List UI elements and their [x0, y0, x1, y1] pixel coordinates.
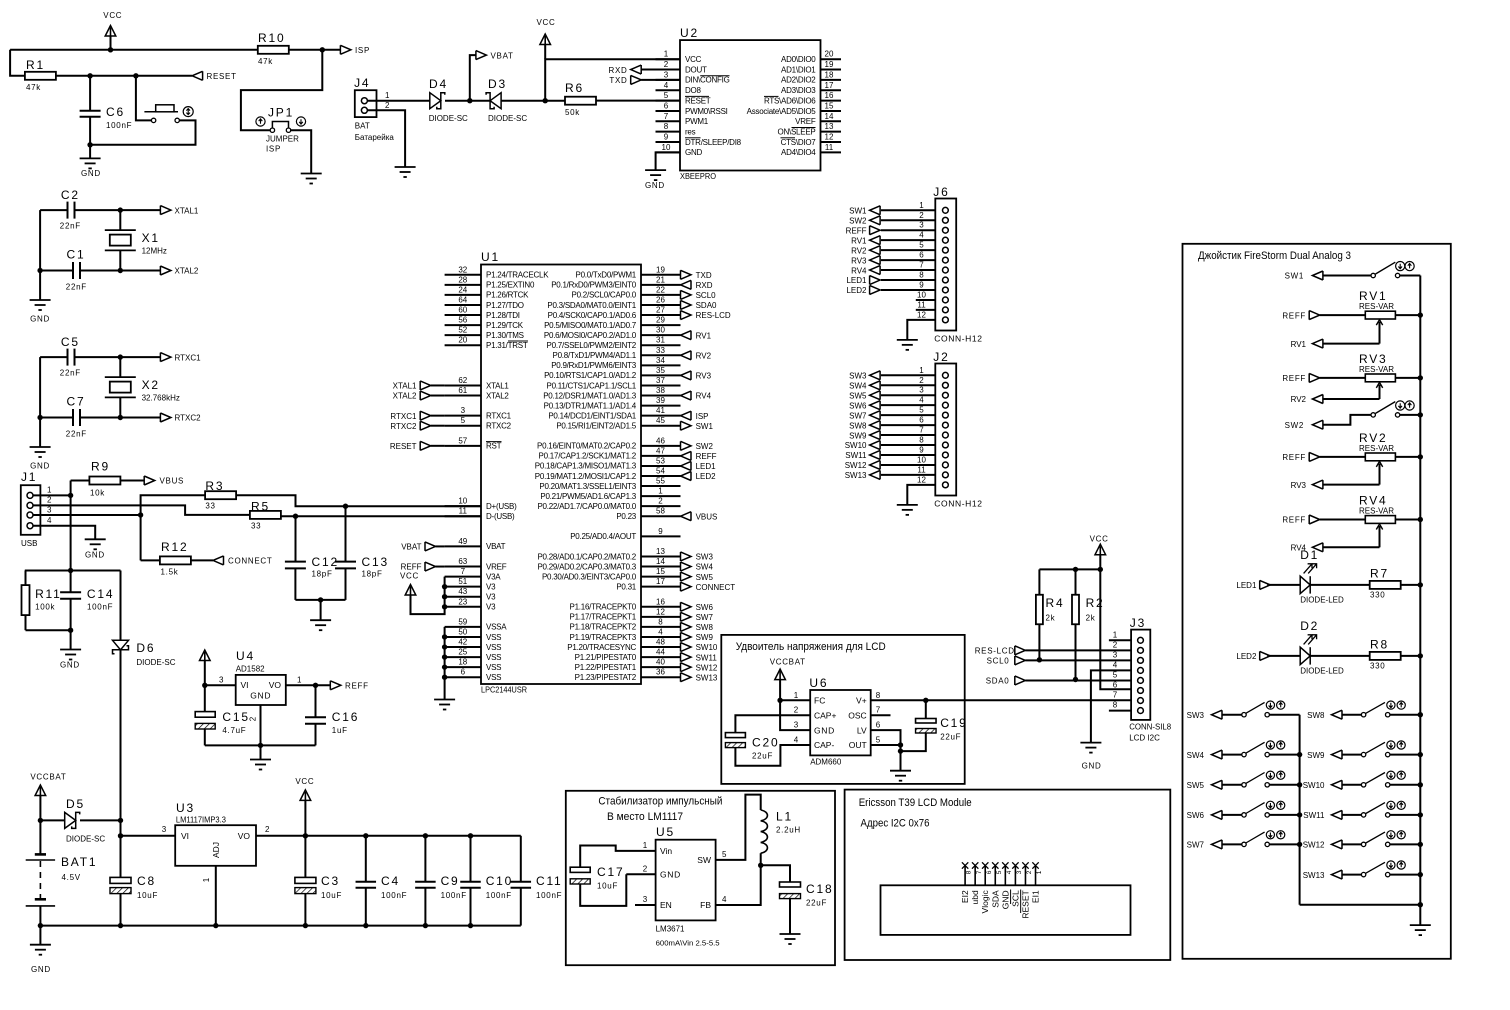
svg-text:20: 20: [458, 336, 467, 345]
junction: [468, 923, 473, 928]
svg-text:63: 63: [458, 557, 467, 566]
svg-text:CONN-H12: CONN-H12: [934, 334, 982, 344]
svg-text:RV4: RV4: [696, 392, 712, 401]
svg-text:P0.9/RxD1/PWM6/EINT3: P0.9/RxD1/PWM6/EINT3: [551, 361, 637, 370]
svg-text:6: 6: [664, 101, 669, 110]
svg-text:46: 46: [656, 436, 665, 445]
svg-text:RES-VAR: RES-VAR: [1359, 444, 1394, 453]
junction: [543, 98, 548, 103]
svg-text:330: 330: [1370, 590, 1385, 599]
junction: [1418, 842, 1423, 847]
svg-text:2: 2: [385, 101, 390, 110]
svg-text:AD3\DIO3: AD3\DIO3: [781, 86, 816, 95]
svg-text:LM3671: LM3671: [656, 925, 685, 934]
svg-text:VI: VI: [241, 680, 249, 690]
svg-text:RESET: RESET: [1020, 890, 1030, 918]
ground: [301, 173, 322, 175]
svg-text:49: 49: [458, 537, 467, 546]
svg-text:4: 4: [919, 231, 924, 240]
svg-text:LED2: LED2: [696, 472, 717, 481]
U1 pin 57 RST: [445, 445, 481, 447]
svg-text:4: 4: [1113, 661, 1118, 670]
U2 pin 6 PWM0\RSSI: [656, 110, 681, 112]
svg-text:P0.10/RTS1/CAP1.0/AD1.2: P0.10/RTS1/CAP1.0/AD1.2: [544, 371, 637, 380]
U1 pin 9 P0.25/AD0.4/AOUT: [641, 535, 681, 537]
svg-text:P0.13/DTR1/MAT1.1/AD1.4: P0.13/DTR1/MAT1.1/AD1.4: [544, 401, 637, 410]
wire ISP node to JP1: [241, 50, 322, 130]
svg-text:P0.1/RxD0/PWM3/EINT0: P0.1/RxD0/PWM3/EINT0: [551, 281, 637, 290]
svg-text:P1.26/RTCK: P1.26/RTCK: [486, 291, 529, 300]
svg-text:X2: X2: [142, 378, 160, 392]
inductor L1 2.2uH: [716, 795, 761, 860]
svg-text:DIODE-SC: DIODE-SC: [136, 658, 175, 667]
wire RTXC1 rail: [40, 356, 67, 358]
U1 pin 45 P0.15/RI1/EINT2/AD1.5: [641, 425, 681, 427]
junction: [1418, 454, 1423, 459]
capacitor C11: [520, 836, 522, 882]
net flag SW6: [681, 602, 692, 611]
U1 pin 43 V3: [445, 596, 481, 598]
svg-text:P0.4/SCK0/CAP0.1/AD0.6: P0.4/SCK0/CAP0.1/AD0.6: [548, 311, 637, 320]
ground: [70, 630, 72, 649]
svg-text:18: 18: [458, 658, 467, 667]
svg-text:P1.29/TCK: P1.29/TCK: [486, 321, 524, 330]
junction: [468, 833, 473, 838]
svg-text:P0.15/RI1/EINT2/AD1.5: P0.15/RI1/EINT2/AD1.5: [556, 422, 636, 431]
svg-text:48: 48: [656, 638, 665, 647]
wire ground rail: [40, 925, 520, 927]
junction: [1073, 567, 1078, 572]
svg-text:Vin: Vin: [660, 846, 672, 856]
U1 pin 59 VSSA: [445, 626, 481, 628]
junction: [118, 833, 123, 838]
junction: [1297, 752, 1302, 757]
wire R5 to U1 D-: [280, 515, 481, 517]
wire left leg to ground: [39, 210, 41, 300]
capacitor C16: [315, 685, 317, 717]
svg-text:4: 4: [47, 516, 52, 525]
net flag CONNECT: [213, 556, 224, 565]
svg-text:47k: 47k: [26, 83, 41, 92]
svg-text:P0.7/SSEL0/PWM2/EINT2: P0.7/SSEL0/PWM2/EINT2: [547, 341, 637, 350]
junction: [118, 268, 123, 273]
svg-text:DIODE-LED: DIODE-LED: [1300, 666, 1344, 675]
svg-text:5: 5: [664, 91, 669, 100]
junction: [258, 743, 263, 748]
svg-text:SW11: SW11: [1303, 811, 1325, 820]
svg-text:D3: D3: [488, 77, 507, 91]
junction: [138, 512, 143, 517]
svg-text:SW9: SW9: [849, 431, 867, 440]
svg-text:C9: C9: [441, 874, 460, 888]
U1 pin 19 P0.0/TxD0/PWM1: [641, 274, 681, 276]
svg-text:ADJ: ADJ: [211, 842, 221, 858]
junction: [442, 654, 447, 659]
svg-text:SW7: SW7: [1187, 841, 1205, 850]
U2 pin 8 res: [656, 131, 681, 133]
net flag LED2: [681, 472, 692, 481]
net flag RTXC2: [160, 413, 171, 422]
ground: [897, 339, 918, 341]
svg-text:RV2: RV2: [696, 351, 712, 360]
svg-text:C4: C4: [381, 874, 400, 888]
svg-text:GND: GND: [85, 551, 105, 560]
svg-text:RV3: RV3: [696, 372, 712, 381]
svg-text:1: 1: [1113, 630, 1118, 639]
svg-text:VBAT: VBAT: [486, 542, 506, 551]
svg-text:4: 4: [658, 627, 663, 636]
ground: [39, 926, 41, 945]
svg-text:18pF: 18pF: [362, 570, 383, 579]
svg-text:VSSA: VSSA: [486, 623, 507, 632]
svg-text:RV4: RV4: [851, 266, 867, 275]
svg-text:EI1: EI1: [1031, 890, 1041, 903]
svg-text:22uF: 22uF: [752, 752, 773, 761]
U1 pin 58 P0.23: [641, 515, 681, 517]
svg-text:REFF: REFF: [401, 563, 422, 572]
svg-text:100nF: 100nF: [381, 891, 407, 900]
resistor R2 2k: [1075, 569, 1077, 594]
svg-text:7: 7: [919, 426, 924, 435]
junction: [318, 597, 323, 602]
net flag SW13: [681, 673, 692, 682]
svg-text:100k: 100k: [35, 603, 55, 612]
svg-text:GND: GND: [250, 691, 271, 701]
wire left leg to ground: [39, 357, 41, 447]
svg-text:12: 12: [656, 607, 665, 616]
svg-text:GND: GND: [60, 661, 80, 670]
svg-text:GND: GND: [685, 148, 703, 157]
svg-text:34: 34: [656, 356, 665, 365]
svg-text:SW12: SW12: [1303, 841, 1325, 850]
svg-text:25: 25: [458, 648, 467, 657]
svg-text:2: 2: [658, 497, 663, 506]
wire R10 to ISP flag: [289, 49, 341, 51]
svg-text:11: 11: [917, 300, 926, 309]
svg-text:19: 19: [656, 265, 665, 274]
svg-text:R4: R4: [1046, 596, 1065, 610]
svg-text:27: 27: [656, 306, 665, 315]
svg-text:4: 4: [722, 895, 727, 904]
svg-text:DTR/SLEEP/DI8: DTR/SLEEP/DI8: [685, 138, 742, 147]
svg-text:2.2uH: 2.2uH: [776, 826, 801, 835]
U1 pin 14 P0.29/AD0.2/CAP0.3/MAT0.3: [641, 566, 681, 568]
wire U2 GND pin to ground: [656, 152, 680, 170]
LCD pin 2 RESET: [1024, 867, 1026, 886]
svg-text:50: 50: [458, 627, 467, 636]
wire R11 C14 bottom rail: [26, 629, 71, 631]
net flag XTAL1: [160, 206, 171, 215]
svg-text:GND: GND: [1082, 762, 1102, 771]
junction VBAT node: [467, 98, 472, 103]
svg-text:22: 22: [656, 285, 665, 294]
net flag REFF: [681, 451, 692, 460]
junction: [923, 698, 928, 703]
junction: [118, 207, 123, 212]
box: Ericsson T39 LCD Module: [845, 790, 1171, 960]
junction: [1418, 782, 1423, 787]
diode D6 DIODE-SC: [120, 571, 122, 641]
svg-text:VSS: VSS: [486, 673, 501, 682]
U2 pin 16 RTS\AD6\DIO6: [821, 100, 842, 102]
U1 pin 41 P0.14/DCD1/EINT1/SDA1: [641, 415, 681, 417]
svg-text:VI: VI: [181, 831, 189, 841]
svg-text:41: 41: [656, 406, 665, 415]
svg-text:R12: R12: [161, 540, 188, 554]
U1 pin 47 P0.17/CAP1.2/SCK1/MAT1.2: [641, 455, 681, 457]
wire VSS bus to ground: [444, 627, 446, 700]
svg-text:3: 3: [162, 825, 167, 834]
ground: [260, 745, 262, 759]
svg-text:600mA\Vin 2.5-5.5: 600mA\Vin 2.5-5.5: [656, 939, 720, 948]
pot wiper RV3: [1379, 463, 1381, 484]
LCD pin 3 SCL: [1014, 867, 1016, 886]
svg-text:C5: C5: [61, 335, 80, 349]
svg-text:RV1: RV1: [696, 331, 712, 340]
svg-text:8: 8: [876, 691, 881, 700]
svg-text:TXD: TXD: [609, 76, 627, 85]
svg-text:2k: 2k: [1046, 614, 1056, 623]
svg-text:VBUS: VBUS: [696, 512, 718, 521]
svg-text:R6: R6: [565, 81, 584, 95]
svg-text:RTS\AD6\DIO6: RTS\AD6\DIO6: [764, 96, 816, 105]
ground: [85, 538, 106, 540]
wire OUT to ground: [900, 745, 902, 771]
svg-text:P0.18/CAP1.3/MISO1/MAT1.3: P0.18/CAP1.3/MISO1/MAT1.3: [535, 462, 637, 471]
junction: [442, 664, 447, 669]
svg-text:8: 8: [664, 122, 669, 131]
LCD pin 7 ubd: [974, 867, 976, 886]
capacitor C10: [470, 836, 472, 882]
svg-text:C17: C17: [597, 865, 624, 879]
U1 pin 34 P0.9/RxD1/PWM6/EINT3: [641, 364, 681, 366]
svg-text:SW4: SW4: [1187, 751, 1205, 760]
capacitor C4: [365, 836, 367, 882]
svg-text:RTXC1: RTXC1: [175, 353, 202, 362]
svg-text:1: 1: [794, 691, 799, 700]
ground: [30, 299, 51, 301]
junction: [133, 73, 138, 78]
U1 pin 54 P0.19/MAT1.2/MOSI1/CAP1.2: [641, 475, 681, 477]
capacitor C9: [424, 836, 426, 882]
svg-text:P1.31/TRST: P1.31/TRST: [486, 341, 528, 350]
svg-text:REFF: REFF: [696, 452, 717, 461]
junction: [898, 742, 903, 747]
wire VBUS net down: [70, 495, 72, 570]
U1 pin 27 P0.4/SCK0/CAP0.1/AD0.6: [641, 314, 681, 316]
U1 pin 30 P0.6/MOSI0/CAP0.2/AD1.0: [641, 334, 681, 336]
U1 pin 48 P1.20/TRACESYNC: [641, 646, 681, 648]
svg-text:RESET: RESET: [390, 442, 417, 451]
svg-text:REFF: REFF: [1282, 453, 1306, 462]
svg-text:DIODE-SC: DIODE-SC: [488, 114, 527, 123]
svg-text:RV1: RV1: [1291, 340, 1307, 349]
svg-text:P1.22/PIPESTAT1: P1.22/PIPESTAT1: [575, 663, 637, 672]
U1 pin 23 V3: [445, 606, 481, 608]
svg-text:61: 61: [458, 386, 467, 395]
svg-text:VBUS: VBUS: [160, 477, 185, 486]
svg-text:CAP-: CAP-: [814, 740, 834, 750]
svg-text:2: 2: [1113, 640, 1118, 649]
svg-text:BAT: BAT: [355, 122, 370, 131]
svg-text:23: 23: [458, 597, 467, 606]
U1 pin 13 P0.28/AD0.1/CAP0.2/MAT0.2: [641, 555, 681, 557]
ground: [780, 933, 801, 935]
junction: [442, 584, 447, 589]
svg-text:SW6: SW6: [849, 401, 867, 410]
svg-text:6: 6: [919, 251, 924, 260]
svg-text:SW9: SW9: [1307, 751, 1325, 760]
svg-text:22nF: 22nF: [66, 430, 87, 439]
svg-text:DIN\CONFIG: DIN\CONFIG: [685, 76, 730, 85]
svg-text:TXD: TXD: [696, 271, 712, 280]
svg-text:2k: 2k: [1086, 614, 1096, 623]
svg-text:AD1582: AD1582: [236, 665, 265, 674]
svg-text:U1: U1: [481, 250, 500, 264]
svg-text:SW: SW: [697, 855, 711, 865]
svg-text:REFF: REFF: [1282, 311, 1306, 320]
junction: [343, 504, 348, 509]
junction: [363, 833, 368, 838]
box: joystick FireStorm Dual Analog 3: [1183, 244, 1451, 959]
net flag ISP: [681, 411, 692, 420]
U1 pin 40 P1.22/PIPESTAT1: [641, 666, 681, 668]
U1 pin 46 P0.16/EINT0/MAT0.2/CAP0.2: [641, 445, 681, 447]
U2 pin 5 RESET: [656, 100, 681, 102]
wire R3 to U1 D+: [236, 495, 481, 506]
ground: [890, 770, 911, 772]
svg-text:RES-VAR: RES-VAR: [1359, 506, 1394, 515]
wire VCC rail to R10: [10, 49, 258, 51]
battery BAT1 4.5V: [39, 820, 41, 853]
svg-text:1: 1: [47, 486, 52, 495]
svg-text:VCC: VCC: [537, 18, 556, 27]
junction: [118, 415, 123, 420]
svg-text:USB: USB: [21, 539, 37, 548]
svg-text:U4: U4: [236, 649, 255, 663]
svg-text:VCCBAT: VCCBAT: [770, 658, 806, 667]
LCD pin 1 EI1: [1035, 867, 1037, 886]
svg-text:XTAL1: XTAL1: [175, 206, 199, 215]
capacitor C13: [345, 506, 347, 561]
svg-text:7: 7: [1113, 691, 1118, 700]
svg-text:SW7: SW7: [696, 613, 714, 622]
svg-text:17: 17: [656, 577, 665, 586]
U1 pin 1 P0.21/PWM5/AD1.6/CAP1.3: [641, 495, 681, 497]
svg-text:RES-LCD: RES-LCD: [696, 311, 731, 320]
svg-text:5: 5: [876, 736, 881, 745]
svg-text:11: 11: [917, 465, 926, 474]
svg-text:RTXC2: RTXC2: [486, 422, 512, 431]
junction: [303, 833, 308, 838]
svg-text:SW8: SW8: [1307, 711, 1325, 720]
junction: [38, 923, 43, 928]
U2 pin 15 Associate\AD5\DIO5: [821, 110, 842, 112]
U1 pin 49 VBAT: [445, 545, 481, 547]
svg-text:36: 36: [656, 668, 665, 677]
svg-text:V3A: V3A: [486, 572, 501, 581]
U2 pin 17 AD3\DIO3: [821, 89, 842, 91]
svg-text:CAP+: CAP+: [814, 710, 836, 720]
net flag VBUS: [681, 512, 692, 521]
svg-text:ON\SLEEP: ON\SLEEP: [777, 127, 815, 136]
box: voltage doubler for LCD: [721, 635, 964, 784]
svg-text:P1.21/PIPESTAT0: P1.21/PIPESTAT0: [575, 653, 637, 662]
svg-text:P0.5/MISO0/MAT0.1/AD0.7: P0.5/MISO0/MAT0.1/AD0.7: [544, 321, 637, 330]
resistor R8 330: [1310, 655, 1370, 657]
U1 pin 24 P1.26/RTCK: [445, 294, 481, 296]
wire VCC to J3 pin 6: [1100, 569, 1131, 689]
svg-text:XBEEPRO: XBEEPRO: [680, 171, 716, 181]
U1 pin 32 P1.24/TRACECLK: [445, 274, 481, 276]
svg-text:10: 10: [917, 290, 926, 299]
svg-text:6: 6: [986, 870, 993, 874]
svg-text:P1.25/EXTIN0: P1.25/EXTIN0: [486, 281, 535, 290]
svg-text:FB: FB: [700, 900, 711, 910]
svg-text:C7: C7: [67, 395, 86, 409]
svg-text:4.7uF: 4.7uF: [222, 726, 246, 735]
svg-text:22uF: 22uF: [806, 899, 827, 908]
crystal X2: [119, 357, 121, 377]
svg-text:1.5k: 1.5k: [161, 568, 179, 577]
svg-text:CONN-H12: CONN-H12: [934, 499, 982, 509]
svg-text:SW10: SW10: [1303, 781, 1325, 790]
svg-text:SW2: SW2: [696, 442, 714, 451]
ground: [310, 619, 331, 621]
pot wiper RV2: [1379, 384, 1381, 399]
svg-text:P1.28/TDI: P1.28/TDI: [486, 311, 520, 320]
svg-text:P1.18/TRACEPKT2: P1.18/TRACEPKT2: [570, 623, 637, 632]
svg-text:P0.12/DSR1/MAT1.0/AD1.3: P0.12/DSR1/MAT1.0/AD1.3: [543, 391, 637, 400]
net flag XTAL2: [160, 266, 171, 275]
svg-text:P0.6/MOSI0/CAP0.2/AD1.0: P0.6/MOSI0/CAP0.2/AD1.0: [544, 331, 637, 340]
svg-text:20: 20: [825, 50, 834, 59]
svg-text:ISP: ISP: [355, 46, 370, 55]
svg-text:C10: C10: [486, 874, 513, 888]
wire R12 drop: [140, 515, 142, 560]
U1 pin 3 RTXC1: [445, 415, 481, 417]
wire pot to bus: [1395, 377, 1420, 379]
svg-text:3: 3: [461, 406, 466, 415]
junction: [442, 604, 447, 609]
svg-text:13: 13: [825, 122, 834, 131]
svg-text:Associate\AD5\DIO5: Associate\AD5\DIO5: [747, 107, 817, 116]
svg-text:10: 10: [917, 455, 926, 464]
svg-text:SW3: SW3: [1187, 711, 1205, 720]
svg-text:8: 8: [966, 870, 973, 874]
svg-text:32.768kHz: 32.768kHz: [142, 394, 180, 403]
svg-text:P0.8/TxD1/PWM4/AD1.1: P0.8/TxD1/PWM4/AD1.1: [553, 351, 637, 360]
junction: [118, 818, 123, 823]
svg-text:2: 2: [248, 716, 257, 721]
svg-text:10uF: 10uF: [597, 882, 618, 891]
wire D6 to VCCBAT rail: [120, 650, 122, 821]
wire R1 to RESET flag: [56, 75, 192, 77]
wire D3 to VCC node: [501, 100, 565, 102]
svg-text:12: 12: [917, 310, 926, 319]
svg-text:D-(USB): D-(USB): [486, 512, 515, 521]
svg-text:SW8: SW8: [849, 421, 867, 430]
capacitor C6: [89, 76, 91, 111]
wire C15 C16 ground rail: [205, 744, 316, 746]
junction: [898, 748, 903, 753]
svg-text:22nF: 22nF: [66, 283, 87, 292]
svg-text:REFF: REFF: [846, 226, 867, 235]
capacitor C12: [295, 516, 297, 561]
svg-text:Батарейка: Батарейка: [355, 133, 395, 142]
resistor R7 330: [1310, 584, 1370, 586]
junction: [87, 142, 92, 147]
